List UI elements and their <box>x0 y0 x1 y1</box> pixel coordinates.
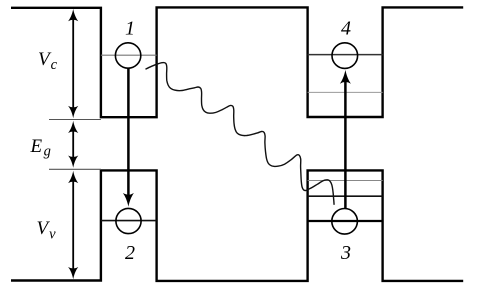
transition arrow 1 to 2 shaft <box>127 68 130 195</box>
electron state circle 1 <box>115 43 140 68</box>
Vv arrowhead bottom <box>68 267 78 279</box>
Vv arrowhead top <box>68 171 78 183</box>
Eg measurement arrow shaft <box>72 128 74 161</box>
conduction band edge profile <box>11 7 463 117</box>
middle hole level line (right valence well) <box>308 195 383 197</box>
level 1 line (left conduction well) <box>101 54 157 56</box>
reference line at conduction well bottom (left) <box>49 119 101 121</box>
transition arrow 1 to 2 head <box>123 193 134 207</box>
transition arrow 3 to 4 head <box>340 70 351 84</box>
level 2 line (left valence well) <box>101 220 157 222</box>
Eg arrowhead top <box>68 121 78 133</box>
upper hole level line (right valence well) <box>308 180 383 182</box>
hole state circle 3 <box>332 209 358 235</box>
svg-text:Vc: Vc <box>38 49 58 73</box>
Vc arrowhead bottom <box>68 106 78 118</box>
photon wavy line <box>146 63 335 205</box>
Vv measurement arrow shaft <box>72 179 74 272</box>
svg-text:Eg: Eg <box>30 136 51 159</box>
hole state circle 2 <box>116 208 141 233</box>
electron state circle 4 <box>332 43 358 69</box>
svg-text:1: 1 <box>125 18 135 40</box>
svg-text:3: 3 <box>340 242 351 264</box>
svg-text:4: 4 <box>341 17 351 39</box>
svg-text:2: 2 <box>125 242 135 264</box>
valence band edge profile <box>11 170 463 281</box>
second electron level line (right conduction well) <box>308 91 383 93</box>
transition arrow 3 to 4 shaft <box>344 82 347 209</box>
svg-text:Vv: Vv <box>37 218 57 242</box>
Eg arrowhead bottom <box>68 156 78 168</box>
Vc arrowhead top <box>68 9 78 21</box>
level 4 line (right conduction well) <box>308 54 383 56</box>
Vc measurement arrow shaft <box>72 16 74 110</box>
level 3 line (right valence well) <box>308 220 383 222</box>
reference line at valence well top (left) <box>49 168 101 170</box>
